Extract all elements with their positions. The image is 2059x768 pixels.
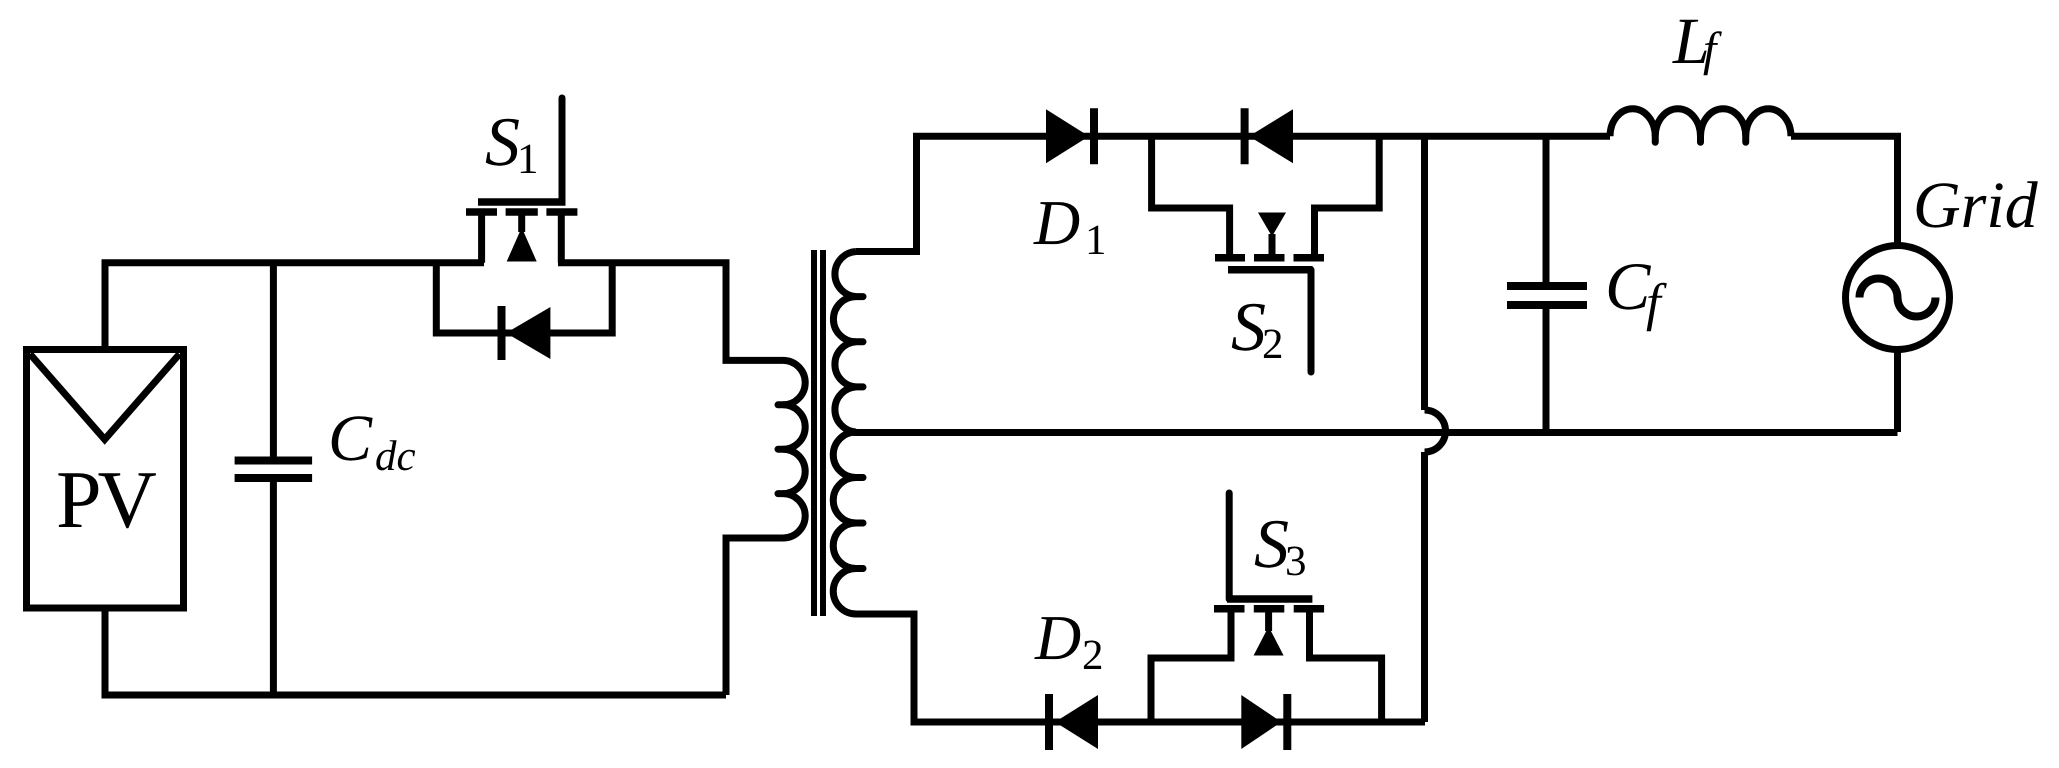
wire top rail (secondary to Lf) [913,133,1610,140]
diode DS1 loop wires [436,263,612,333]
wire grid to output bottom [1894,348,1901,432]
label D1 [1033,202,1104,254]
wire Lf to grid [1791,136,1898,247]
capacitor Cf bottom lead [1543,309,1550,432]
label D2 [1034,617,1101,669]
capacitor Cf plates [1507,282,1587,290]
label S2 [1232,304,1281,358]
diode D1 [1046,109,1089,163]
wire crossover hop vertical lower [1421,452,1428,722]
transistor S1 source stub [558,212,565,263]
transistor S2 channel segments [1215,254,1324,262]
transistor S1 body arrow [518,212,525,232]
wire bottom branch rail [911,719,1426,726]
diode D2 [1055,695,1098,749]
transformer T1 primary bottom return wire [726,538,783,695]
AC source Grid circle [1846,246,1950,350]
transistor S1 gate lead [559,98,566,202]
diode DS2 (antiparallel to S2) [1249,109,1293,163]
transistor S3 gate lead [1226,493,1233,599]
wire bottom rail [102,692,727,699]
transformer T1 primary winding cusp stubs [778,405,783,494]
transistor S1 channel segments [466,208,577,216]
label Lf [1672,20,1722,75]
transformer T1 secondary upper cusp stubs [856,297,863,387]
transistor S3 channel segments [1214,605,1324,613]
label S1 [486,119,536,173]
transformer T1 primary winding [783,360,805,538]
PV chevron symbol [30,354,180,439]
wire PV bottom lead [102,606,109,695]
wire top rail left (node A) [102,259,485,266]
label Cf [1609,264,1667,331]
wire center tap to output bottom [853,429,1898,436]
label S3 [1255,521,1305,576]
transistor S2 drain wire left [1152,136,1230,256]
inductor Lf cusp stubs [1655,136,1746,142]
label Cdc [332,416,415,470]
transformer T1 secondary upper winding [833,252,856,433]
capacitor Cdc plates [235,457,313,465]
capacitor Cdc bottom lead [270,482,277,695]
transistor S2 body arrow [1258,213,1286,237]
transistor S3 source wire left [1151,611,1231,722]
AC source Grid sine symbol [1860,279,1936,317]
transistor S3 gate bar [1227,595,1312,603]
wire S1 to transformer primary [558,263,783,361]
wire crossover hop vertical upper [1421,136,1428,410]
transistor S3 body arrow [1265,609,1272,631]
wire PV top lead [102,263,109,351]
capacitor Cf top lead [1543,136,1550,282]
capacitor Cdc top lead [270,263,277,457]
wire secondary bottom down [856,614,914,722]
wire crossover hop [1425,410,1446,452]
transformer T1 secondary lower cusp stubs [856,478,863,569]
transistor S2 gate lead [1308,270,1315,372]
diode DS1 (antiparallel to S1) [506,307,550,359]
transformer T1 core [814,250,823,616]
transistor S1 gate bar [478,198,566,206]
label PV [58,473,155,528]
transistor S2 drain wire right [1315,136,1380,256]
transistor S2 gate bar [1228,266,1313,274]
PV source box [27,350,184,609]
wire secondary top to rail [856,136,917,251]
label Grid [1917,181,2038,228]
inductor Lf winding [1610,109,1791,137]
transformer T1 secondary lower winding [833,432,856,614]
transistor S1 drain stub [478,212,485,263]
diode DS3 (antiparallel to S3) [1241,695,1281,749]
transistor S3 drain wire right [1310,611,1382,722]
